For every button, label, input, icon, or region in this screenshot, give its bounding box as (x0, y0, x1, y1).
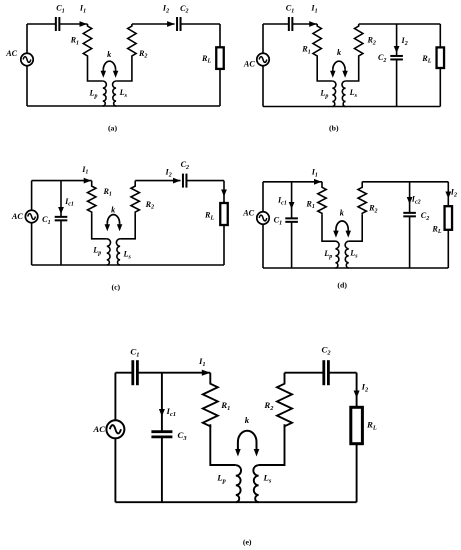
capacitor C3 (e) (151, 430, 187, 442)
inductor Lp primary coil (d) (323, 241, 339, 268)
inductor Ls secondary coil (a) (113, 81, 128, 106)
bottom rail wire (e) (115, 438, 356, 502)
resistor R1 (d) (305, 182, 326, 215)
wire (d) AC top to top rail (263, 182, 322, 212)
wire (a) C2 to RL (180, 24, 220, 47)
load resistor RL (a) (201, 47, 224, 69)
sub-figure label (c) (111, 282, 120, 291)
wire (d) C2 branch lower (409, 216, 411, 268)
wire (a) AC top to C1 (27, 24, 56, 53)
inductor Ls secondary coil (c) (116, 239, 131, 265)
wire (d) C1 branch upper with current arrow Ic1 (277, 182, 295, 219)
capacitor C1 (d) (274, 216, 298, 227)
wire (a) Ls to R2 (116, 58, 132, 82)
inductor Ls secondary coil (e) (253, 465, 271, 502)
load resistor RL (e) (351, 407, 377, 443)
wire (c) C1 branch upper with current arrow Ic1 (58, 181, 74, 217)
coupling k symbol (e) (235, 415, 259, 457)
inductor Ls secondary coil (d) (345, 241, 358, 268)
bottom rail wire (b) (263, 66, 440, 107)
wire (a) C1 to R1 with current arrow I1 (59, 4, 87, 27)
wire (e) Ls to R2 (259, 424, 285, 465)
inductor Lp primary coil (b) (319, 81, 336, 106)
sub-figure label (b) (329, 124, 339, 133)
wire (e) R2 to C2 (285, 372, 324, 374)
load resistor RL (b) (421, 47, 444, 68)
load resistor RL (c) (204, 203, 228, 225)
capacitor C1 (b) (286, 4, 294, 31)
capacitor C1 (a) (56, 4, 65, 32)
wire (b) C1 to R1 with current arrow I1 (292, 4, 317, 27)
wire (b) C2 to bottom rail (396, 60, 398, 107)
wire (d) Ls to R2 (349, 215, 362, 241)
resistor R1 (e) (203, 373, 231, 428)
capacitor C2 (b) (378, 53, 403, 64)
bottom rail wire (c) (32, 223, 224, 265)
wire (e) C1 to R1 with current arrow I1 (137, 356, 210, 376)
inductor Lp primary coil (a) (88, 81, 106, 106)
resistor R2 (c) (131, 181, 154, 214)
bottom rail wire (a) (27, 66, 220, 106)
wire (c) AC top to top rail (32, 181, 92, 211)
circuit (b) series-parallel topology (243, 4, 444, 133)
resistor R1 (b) (301, 24, 321, 58)
svg-text:AC: AC (92, 424, 105, 434)
current arrow I1 (d) (311, 168, 322, 185)
svg-text:(c): (c) (111, 282, 120, 291)
wire (e) C3 branch upper with current arrow Ic1 (159, 373, 176, 432)
coupling k symbol (a) (101, 50, 119, 78)
capacitor C2 (a) (177, 4, 188, 31)
bottom rail wire (d) (263, 224, 448, 268)
wire (c) R1 to Lp (92, 214, 107, 239)
wire (a) R1 to Lp (88, 58, 103, 82)
sub-figure label (e) (243, 538, 252, 547)
resistor R2 (e) (263, 373, 292, 428)
wire (b) Ls to R2 (346, 58, 359, 82)
svg-text:(a): (a) (108, 124, 117, 133)
inductor Lp primary coil (e) (216, 465, 241, 502)
resistor R1 (c) (88, 181, 112, 214)
coupling k symbol (d) (333, 208, 351, 237)
circuit (d) parallel-parallel topology (242, 168, 457, 290)
top rail wire (b) R2 to RL (359, 23, 441, 25)
wire (c) Ls to R2 (120, 214, 135, 239)
wire (e) R1 to Lp (210, 424, 236, 465)
svg-text:(e): (e) (243, 538, 252, 547)
resistor R2 (b) (355, 24, 376, 58)
wire (e) C2 to right branch with current arrow I2 (328, 373, 369, 408)
AC source V1 (b) (243, 53, 269, 68)
wire (c) C2 to right branch with down arrow (187, 181, 227, 203)
coupling k symbol (c) (105, 205, 123, 231)
svg-text:(d): (d) (337, 280, 347, 289)
inductor Ls secondary coil (b) (342, 81, 358, 106)
wire (b) R1 to Lp (317, 58, 332, 82)
AC source V1 (a) (5, 49, 33, 66)
wire (c) C1 branch lower (60, 220, 62, 265)
sub-figure label (a) (108, 124, 117, 133)
AC source V1 (e) (92, 420, 124, 438)
current arrow I1 (c) (81, 165, 91, 184)
circuit (c) parallel-series topology (11, 160, 228, 291)
svg-text:AC: AC (242, 209, 254, 218)
resistor R1 (a) (70, 24, 92, 58)
inductor Lp primary coil (c) (92, 239, 110, 265)
resistor R2 (a) (128, 24, 148, 60)
capacitor C1 (c) (42, 215, 67, 226)
svg-text:AC: AC (243, 59, 255, 68)
wire (b) C2 branch with current arrow I2 (394, 24, 408, 56)
wire (a) RL to bottom rail (219, 69, 221, 106)
AC source V1 (c) (11, 210, 38, 222)
circuit (e) LCC topology (92, 344, 376, 546)
resistor R2 (d) (358, 182, 378, 215)
wire (d) R1 to Lp (322, 215, 335, 241)
wire (b) RL to bottom rail (439, 68, 441, 107)
wire (e) RL to bottom rail (356, 444, 358, 503)
wire (b) right branch top (439, 24, 441, 47)
top rail wire (d) R2 to right branch (362, 181, 448, 183)
wire (e) C3 branch lower (161, 437, 163, 502)
sub-figure label (d) (337, 280, 347, 289)
capacitor C1 (e) (130, 346, 139, 385)
wire (d) RL to bottom rail (447, 230, 449, 268)
coupling k symbol (b) (330, 48, 348, 78)
capacitor C2 (c) (181, 160, 189, 187)
wire (a) R2 to C2 with current arrow I2 (132, 4, 175, 27)
load resistor RL (d) (431, 206, 452, 235)
capacitor C2 (e) (322, 344, 332, 385)
AC source V1 (d) (242, 209, 269, 225)
wire (c) R2 to C2 with current arrow I2 (135, 168, 180, 184)
wire (d) C1 branch lower (291, 222, 293, 268)
wire (c) RL to bottom rail (223, 225, 225, 265)
wire (b) AC top to C1 (263, 24, 289, 53)
wire (e) AC top to C1 (115, 373, 132, 421)
svg-text:AC: AC (11, 212, 23, 221)
wire (d) right branch with current arrow I2 (445, 182, 457, 206)
svg-text:k: k (245, 415, 250, 425)
capacitor C2 (d) (403, 211, 429, 222)
svg-text:(b): (b) (329, 124, 339, 133)
svg-text:AC: AC (5, 49, 17, 58)
wire (d) C2 branch upper with current arrow Ic2 (407, 182, 421, 213)
circuit (a) series-series topology (5, 4, 224, 133)
